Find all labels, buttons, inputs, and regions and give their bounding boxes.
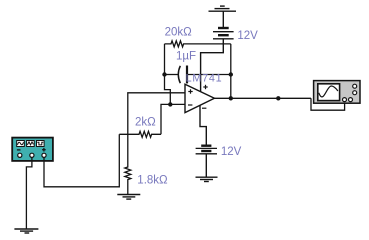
svg-text:12V: 12V — [221, 146, 242, 158]
svg-text:12V: 12V — [237, 30, 258, 42]
wire output to oscilloscope terminal — [311, 98, 345, 110]
function generator XFG1 — [12, 138, 53, 161]
ground GND3 (below FG) — [14, 229, 38, 233]
wire op-amp V- pin to battery V2 — [200, 105, 206, 145]
junction dot (output/feedback) — [229, 96, 233, 100]
terminals — [18, 153, 22, 157]
wire ground to battery V1 — [222, 11, 224, 28]
wire feedback right vertical — [230, 44, 232, 98]
junction dot (cap left / feedback node) — [162, 72, 166, 76]
wire 2k to inverting input — [161, 104, 185, 134]
ground GND4 (below 1.8k) — [117, 195, 140, 200]
capacitor C1 1uF — [178, 66, 231, 84]
junction dot (output mid) — [276, 96, 280, 100]
battery V1 12V — [213, 28, 234, 39]
wire output — [214, 97, 311, 99]
svg-text:1µF: 1µF — [176, 51, 196, 63]
junction dot (cap right / feedback right) — [229, 72, 233, 76]
svg-text:1.8kΩ: 1.8kΩ — [137, 174, 168, 186]
wire FG common to ground — [26, 158, 32, 229]
V+ supply mark — [203, 86, 207, 88]
wire FG plus terminal to input node — [44, 134, 119, 187]
op-amp U1 LM741 — [185, 84, 214, 112]
resistor R1 20k — [165, 41, 231, 47]
wire battery V1 to op-amp V+ pin — [201, 39, 224, 92]
svg-text:2kΩ: 2kΩ — [135, 116, 156, 128]
ground GND2 (below battery V2) — [196, 177, 218, 181]
sine icon — [18, 142, 24, 145]
wire non-inverting input to node — [128, 93, 185, 135]
battery V2 12V — [196, 146, 217, 154]
resistor R2 2k — [119, 131, 161, 137]
svg-text:20kΩ: 20kΩ — [165, 26, 193, 38]
junction dot (inverting input node) — [168, 102, 172, 106]
oscilloscope XSC1 — [314, 81, 360, 104]
square icon — [37, 142, 43, 145]
ground GND1 (top, inverted) — [209, 6, 237, 11]
svg-text:LM741: LM741 — [186, 72, 223, 84]
resistor R3 1.8k — [125, 134, 131, 194]
minus label — [17, 149, 21, 151]
wire node to capacitor left plate — [165, 74, 179, 76]
non-inverting input + mark — [188, 91, 192, 93]
scope terminals — [353, 84, 357, 88]
inverting input - mark — [188, 104, 192, 106]
wire feedback left vertical with jog to inverting input — [165, 44, 171, 105]
wire battery V2 to ground — [205, 154, 207, 177]
scope screen sine trace — [319, 86, 338, 97]
plus label — [42, 149, 46, 151]
V- supply mark — [202, 107, 206, 109]
triangle icon — [27, 142, 33, 145]
